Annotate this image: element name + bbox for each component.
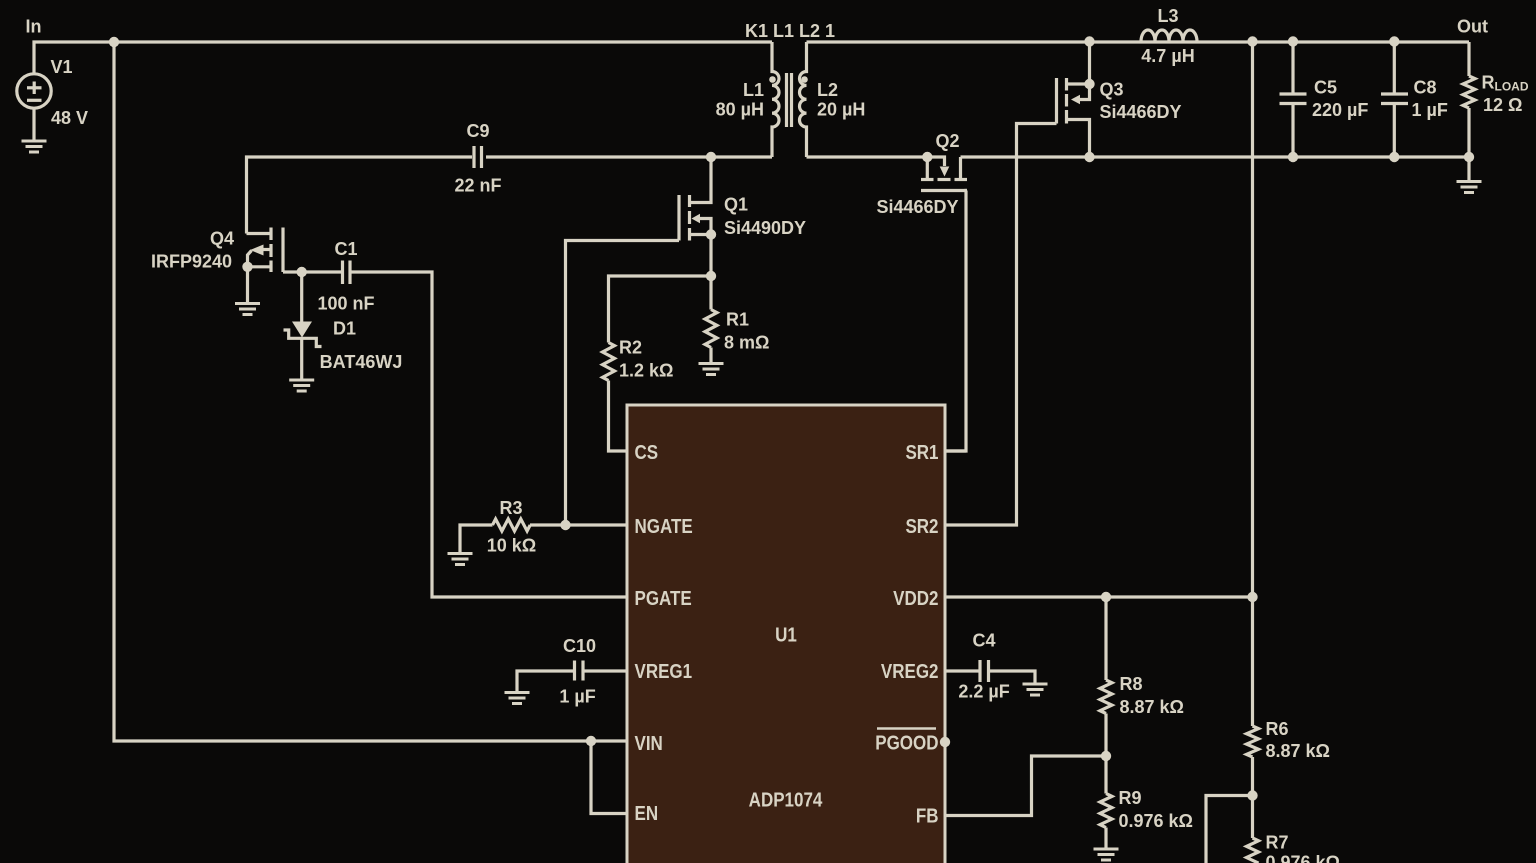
wire Q2 source to Q3 drain <box>961 155 1090 158</box>
svg-text:V1: V1 <box>51 57 73 77</box>
node Q2 drain junction dot <box>922 152 932 162</box>
svg-text:8 mΩ: 8 mΩ <box>724 333 769 353</box>
node NGATE junction dot <box>560 520 570 530</box>
svg-text:Out: Out <box>1457 17 1488 37</box>
svg-text:10 kΩ: 10 kΩ <box>487 536 536 556</box>
L2 polarity dot <box>801 76 808 83</box>
node C1/D1 junction dot <box>297 267 307 277</box>
wire Q4 source to ground <box>246 267 249 302</box>
svg-text:L3: L3 <box>1157 6 1178 26</box>
svg-text:C9: C9 <box>466 121 489 141</box>
wire R6/R7 tap going down <box>1206 796 1253 863</box>
resistor R9 <box>1100 756 1112 848</box>
svg-text:C1: C1 <box>334 239 357 259</box>
capacitor C4 <box>945 660 1035 683</box>
transistor Q3 <box>1057 78 1090 157</box>
svg-text:PGATE: PGATE <box>635 587 692 610</box>
transformer secondary L2 winding <box>800 42 807 157</box>
svg-text:FB: FB <box>916 804 939 827</box>
ground below V1 <box>22 141 47 152</box>
svg-text:R6: R6 <box>1266 719 1289 739</box>
svg-text:Si4490DY: Si4490DY <box>724 218 806 238</box>
node VDD2/R8 junction dot <box>1101 592 1111 602</box>
resistor R2 <box>603 343 615 381</box>
wire In node down to VIN <box>114 42 591 741</box>
wire secondary bottom to Q2 <box>807 155 928 158</box>
wire Q2 gate to SR1 pin <box>945 191 967 452</box>
wire R3 left to ground <box>460 525 493 552</box>
svg-text:48 V: 48 V <box>51 108 88 128</box>
svg-text:Si4466DY: Si4466DY <box>1100 102 1182 122</box>
svg-text:In: In <box>26 17 42 37</box>
svg-text:1 µF: 1 µF <box>559 687 595 707</box>
ground below C10 <box>505 693 530 704</box>
node primary-bottom junction dot <box>706 152 716 162</box>
node rail/Q3 junction dot <box>1084 36 1094 46</box>
node C5 bottom junction dot <box>1288 152 1298 162</box>
svg-text:NGATE: NGATE <box>635 515 693 538</box>
svg-text:1 µF: 1 µF <box>1412 100 1448 120</box>
capacitor C10 <box>575 661 584 681</box>
svg-text:L1: L1 <box>743 80 764 100</box>
ground right of C4 <box>1023 684 1048 695</box>
svg-text:VREG2: VREG2 <box>881 660 939 683</box>
capacitor C8 <box>1381 42 1408 158</box>
ground below R9 <box>1094 849 1119 860</box>
wire FB to divider tap <box>945 756 1106 816</box>
ground below Q4 <box>235 304 260 315</box>
svg-text:8.87 kΩ: 8.87 kΩ <box>1266 741 1330 761</box>
svg-text:R7: R7 <box>1266 833 1289 853</box>
node R8/R9 junction dot <box>1101 751 1111 761</box>
svg-text:ADP1074: ADP1074 <box>749 788 823 811</box>
ground below D1 <box>289 380 314 391</box>
node RLOAD bottom junction dot <box>1464 152 1474 162</box>
svg-text:R8: R8 <box>1120 674 1143 694</box>
svg-text:20 µH: 20 µH <box>817 100 865 120</box>
svg-text:2.2 µF: 2.2 µF <box>958 682 1009 702</box>
node C8 bottom junction dot <box>1389 152 1399 162</box>
node R6/R7 junction dot <box>1247 790 1257 800</box>
node PGOOD pin dot <box>940 737 950 747</box>
node Q3 source junction dot <box>1084 79 1094 89</box>
node VDD2/R6 junction dot <box>1247 592 1257 602</box>
wire V1 top to rail <box>34 42 772 74</box>
node C5 top junction dot <box>1288 36 1298 46</box>
capacitor C9 <box>474 146 482 168</box>
wire Q1 source down <box>709 235 712 310</box>
node rail/VDD2 junction dot <box>1247 36 1257 46</box>
wire NGATE node to pin <box>530 523 627 526</box>
svg-text:SR2: SR2 <box>905 515 938 538</box>
svg-text:8.87 kΩ: 8.87 kΩ <box>1120 697 1184 717</box>
svg-text:C4: C4 <box>972 631 995 651</box>
svg-text:VDD2: VDD2 <box>893 587 938 610</box>
svg-text:D1: D1 <box>333 319 356 339</box>
svg-text:220 µF: 220 µF <box>1312 100 1368 120</box>
svg-text:0.976 kΩ: 0.976 kΩ <box>1119 811 1194 831</box>
svg-text:R1: R1 <box>726 310 749 330</box>
svg-text:C10: C10 <box>563 636 596 656</box>
transformer K1 primary L1 winding <box>772 42 779 157</box>
svg-text:Q2: Q2 <box>936 131 960 151</box>
svg-text:Q4: Q4 <box>210 229 234 249</box>
svg-text:Q3: Q3 <box>1100 80 1124 100</box>
wire R1 to ground <box>709 348 712 363</box>
L1 polarity dot <box>769 76 776 83</box>
node VIN/EN junction dot <box>586 736 596 746</box>
resistor R7 <box>1247 796 1259 863</box>
svg-text:R2: R2 <box>619 338 642 358</box>
svg-text:VREG1: VREG1 <box>635 660 693 683</box>
svg-text:U1: U1 <box>775 623 797 646</box>
wire secondary ground bus <box>1090 155 1470 158</box>
svg-text:R9: R9 <box>1119 788 1142 808</box>
wire primary bottom to node <box>486 155 772 158</box>
op-amp U1 IC body ADP1074 <box>627 405 945 863</box>
node Q3 drain bus junction dot <box>1084 152 1094 162</box>
svg-text:BAT46WJ: BAT46WJ <box>320 352 403 372</box>
svg-text:SR1: SR1 <box>905 441 938 464</box>
resistor RLOAD <box>1463 42 1475 157</box>
wire Q3 gate to SR2 pin <box>945 124 1057 526</box>
wire C9 left to Q4 top <box>247 157 473 234</box>
transistor Q2 <box>921 157 967 191</box>
node Q1 source junction dot <box>706 229 716 239</box>
svg-text:C8: C8 <box>1414 78 1437 98</box>
wire rail to VDD2 <box>1251 42 1254 598</box>
transistor Q1 <box>679 157 711 241</box>
svg-text:CS: CS <box>635 441 659 464</box>
transformer core <box>785 73 788 127</box>
capacitor C5 <box>1280 42 1307 158</box>
wire Q1 gate to NGATE node <box>566 241 680 526</box>
voltage source V1 <box>17 74 51 108</box>
svg-text:80 µH: 80 µH <box>716 100 764 120</box>
capacitor C1 <box>343 261 351 285</box>
svg-text:PGOOD: PGOOD <box>875 731 938 754</box>
wire VIN node to EN pin <box>591 741 627 814</box>
ground below R1 <box>699 364 724 375</box>
resistor R3 <box>493 519 531 531</box>
wire C10 right to VREG1 pin <box>585 669 628 672</box>
resistor R1 <box>705 310 717 348</box>
wire node to C1 <box>302 270 341 273</box>
ground below R3 <box>448 554 473 565</box>
wire V1 bottom <box>32 108 35 140</box>
U1 pin PGOOD overline <box>877 727 936 730</box>
diode D1 <box>284 272 322 379</box>
svg-text:Si4466DY: Si4466DY <box>877 197 959 217</box>
wire Q3 source up to rail <box>1088 42 1091 85</box>
transistor Q4 <box>247 228 284 273</box>
wire R2 bottom to CS pin <box>609 381 628 452</box>
svg-text:12 Ω: 12 Ω <box>1483 95 1522 115</box>
node In junction dot <box>109 37 119 47</box>
svg-text:22 nF: 22 nF <box>454 176 501 196</box>
wire node to R2 top <box>609 276 712 343</box>
wire VDD2 to divider <box>945 595 1253 598</box>
node R1/R2 junction dot <box>706 271 716 281</box>
svg-text:IRFP9240: IRFP9240 <box>151 252 232 272</box>
wire C10 left to ground <box>517 671 573 691</box>
wire RLOAD to ground <box>1467 157 1470 180</box>
svg-text:0.976 kΩ: 0.976 kΩ <box>1266 853 1341 863</box>
svg-text:100 nF: 100 nF <box>317 294 374 314</box>
wire C1 to PGATE <box>352 272 628 597</box>
node Q4 source junction dot <box>242 262 252 272</box>
wire SR1 stub <box>945 449 966 452</box>
svg-text:VIN: VIN <box>635 732 663 755</box>
inductor L3 <box>1141 30 1197 41</box>
wire output rail <box>807 40 1470 43</box>
wire VIN node to pin <box>591 739 627 742</box>
svg-text:1.2 kΩ: 1.2 kΩ <box>619 361 673 381</box>
svg-text:C5: C5 <box>1314 78 1337 98</box>
svg-text:EN: EN <box>635 802 659 825</box>
svg-text:L2: L2 <box>817 80 838 100</box>
wire Q4 gate to C1/D1 node <box>283 270 302 273</box>
svg-text:4.7 µH: 4.7 µH <box>1141 46 1194 66</box>
resistor R6 <box>1247 597 1259 796</box>
ground below RLOAD <box>1457 182 1482 193</box>
node C8 top junction dot <box>1389 36 1399 46</box>
svg-text:K1 L1 L2 1: K1 L1 L2 1 <box>745 21 835 41</box>
svg-text:R3: R3 <box>499 498 522 518</box>
svg-text:Q1: Q1 <box>724 195 748 215</box>
resistor R8 <box>1100 597 1112 756</box>
